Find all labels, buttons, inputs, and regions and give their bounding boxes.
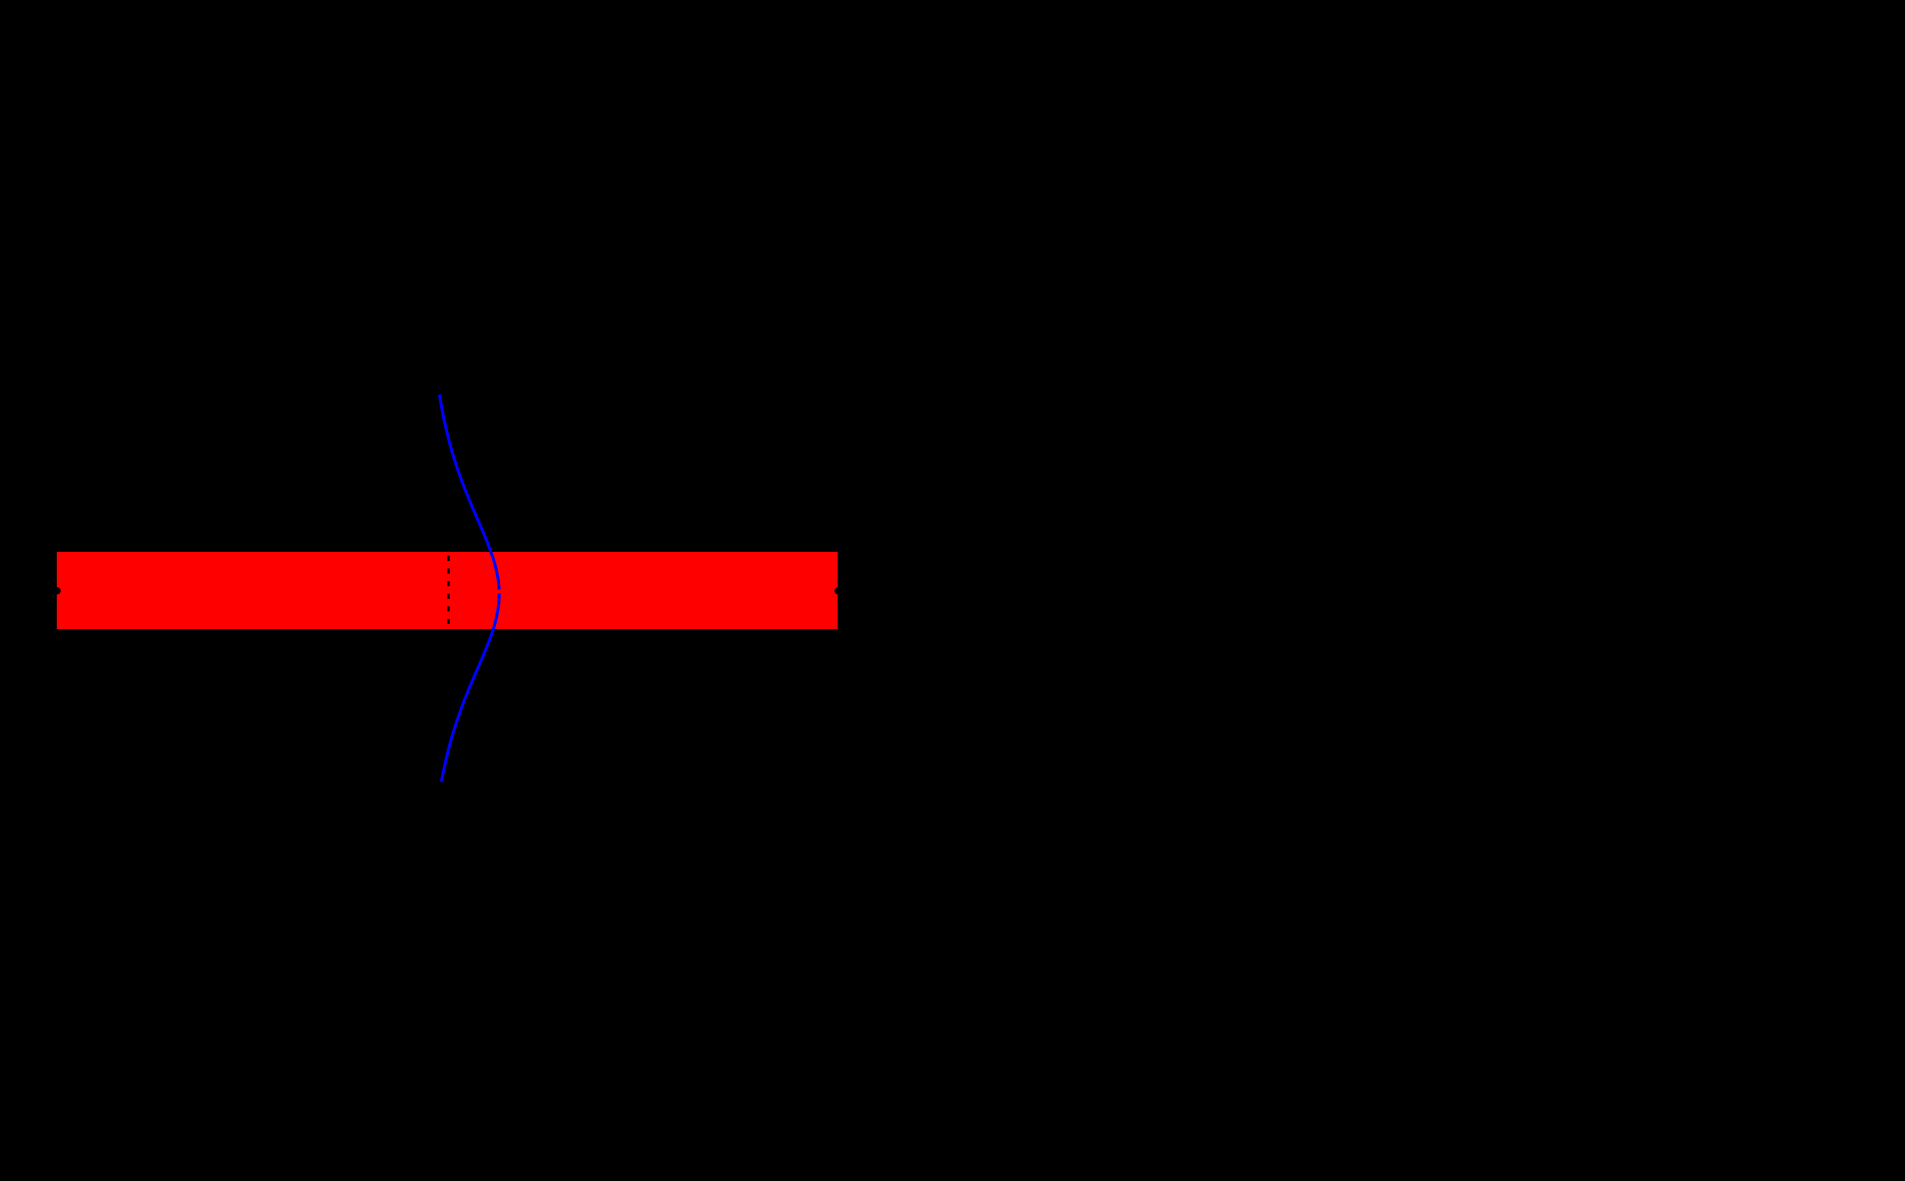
rod (red bar) <box>57 552 838 629</box>
endpoint dot (left rod end) <box>54 587 61 594</box>
wave profile curve (upper half) <box>439 395 499 590</box>
endpoint dot (right rod end) <box>834 587 841 594</box>
dashed marker line x0 <box>447 556 449 629</box>
wave profile curve (lower half) <box>441 593 499 782</box>
